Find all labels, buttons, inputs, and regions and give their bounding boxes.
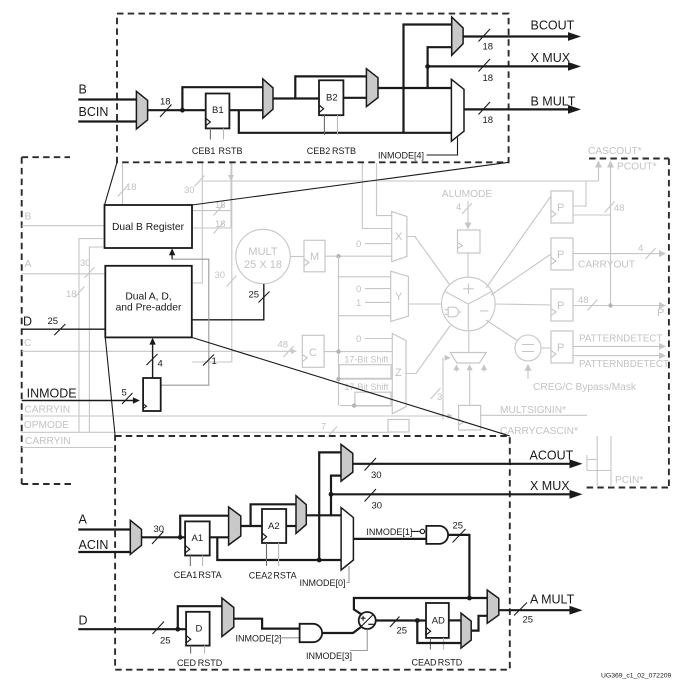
register B1 [206, 94, 230, 129]
junction B fanout [180, 108, 185, 113]
register B2 [319, 80, 343, 115]
mux B MULT select (INMODE[4]) [451, 79, 464, 141]
pin RSTD [198, 646, 223, 668]
block Dual A, D, and Pre-adder [105, 266, 192, 338]
wire P1 pcout [573, 214, 611, 216]
junction [336, 254, 340, 258]
net A MULT output arrow (25) [499, 593, 583, 626]
svg-text:CASCOUT*: CASCOUT* [588, 146, 642, 157]
svg-text:48: 48 [278, 340, 289, 351]
wire D bypass (to muxD top) [178, 606, 222, 629]
net ACOUT output arrow [353, 449, 583, 482]
svg-text:0: 0 [356, 284, 361, 295]
register A2 [262, 509, 286, 543]
carry trapezoid inputs [431, 355, 488, 420]
wire Z to ALU [406, 326, 450, 374]
pin INMODE[1] with inverter bubble [366, 527, 424, 537]
svg-text:17-Bit Shift: 17-Bit Shift [344, 355, 389, 365]
wire mux out (30) [142, 524, 186, 544]
wire B direct bypass (to B MULT mux bottom) [239, 110, 452, 133]
wire C into C register [22, 350, 297, 352]
wire pre-adder out (25) [376, 617, 426, 637]
svg-text:A1: A1 [192, 533, 204, 544]
svg-text:M: M [310, 251, 319, 263]
pin RSTA [198, 556, 221, 581]
node A (gray input label) [22, 259, 105, 274]
svg-text:A MULT: A MULT [530, 593, 575, 607]
bottom dashed zoom box [115, 436, 510, 670]
net P output [573, 295, 666, 319]
svg-text:Z: Z [395, 367, 402, 379]
wire ALU to eq [486, 320, 517, 340]
svg-text:18: 18 [483, 73, 494, 84]
pin INMODE[4] select [378, 138, 458, 161]
svg-text:P: P [557, 342, 564, 354]
block Dual B Register [105, 205, 193, 248]
svg-text:P: P [657, 307, 664, 319]
wire B2 out to mux3 [343, 97, 366, 99]
wire B [22, 225, 104, 227]
pin CED [177, 646, 197, 668]
net PATTERNDETECT [573, 334, 666, 350]
svg-text:RSTD: RSTD [438, 658, 463, 668]
wire CARRYIN2 [22, 447, 113, 449]
wire pcout loop horizontal [184, 176, 599, 207]
net CASCOUT* [588, 146, 642, 181]
pin RSTD2 [438, 638, 463, 668]
svg-text:30: 30 [80, 258, 91, 269]
wire pre-adder block to MULT (25) [192, 284, 270, 320]
register C [302, 335, 324, 367]
svg-text:4: 4 [638, 243, 643, 254]
svg-text:Dual B Register: Dual B Register [112, 222, 185, 233]
wire mux3 out to B MULT mux [378, 87, 451, 89]
net PATTERNBDETECT [573, 352, 669, 370]
svg-text:INMODE[2]: INMODE[2] [236, 634, 282, 644]
wire C vertical cascade [338, 277, 340, 406]
comparator = circle [515, 335, 541, 361]
svg-text:RSTA: RSTA [198, 570, 221, 580]
wire A [22, 273, 105, 275]
wire BCIN [78, 120, 137, 122]
pin CEAD [411, 638, 437, 668]
register A1 [185, 521, 210, 555]
node OPMODE (gray label) [22, 420, 390, 437]
node D (input label) [22, 315, 106, 336]
svg-text:INMODE[3]: INMODE[3] [306, 651, 352, 661]
svg-text:A2: A2 [268, 521, 280, 532]
svg-text:INMODE[1]: INMODE[1] [366, 527, 412, 537]
ALUMODE label [442, 189, 493, 230]
svg-text:OPMODE: OPMODE [24, 420, 69, 431]
svg-text:B1: B1 [212, 105, 224, 116]
svg-text:CEA1: CEA1 [174, 570, 198, 580]
wire A1 out to mux2 [210, 536, 229, 538]
register D [186, 612, 210, 646]
wire ALU to P2 [491, 254, 551, 295]
svg-text:CARRYOUT: CARRYOUT [578, 260, 635, 271]
zoom callout line right (pre-adder block to bottom box) [192, 337, 510, 436]
pin INMODE[2] [236, 634, 300, 644]
ALU circle [442, 277, 496, 331]
mux Y input 1 [356, 298, 391, 309]
svg-text:18: 18 [66, 289, 77, 300]
wire B 18 drop from top box [118, 163, 137, 225]
pin CEB2 [307, 115, 331, 156]
wire shift2 feed [340, 403, 392, 407]
svg-text:D: D [23, 315, 32, 329]
middle slice boundary dashed box (partial) [22, 157, 669, 487]
svg-text:B: B [79, 83, 87, 97]
svg-text:25: 25 [397, 626, 408, 637]
svg-text:B: B [25, 212, 32, 223]
wire BCIN cascade vertical [66, 239, 103, 433]
svg-text:CEAD: CEAD [411, 658, 437, 668]
wire unregistered tap up to ACOUT mux [317, 452, 342, 562]
wire b out 18 [192, 210, 231, 212]
svg-text:A: A [79, 513, 88, 527]
svg-text:18: 18 [483, 115, 494, 126]
junction A fanout [178, 535, 183, 540]
svg-text:48: 48 [578, 295, 589, 306]
junction D fanout [175, 627, 180, 632]
mux X input 0 [356, 239, 392, 250]
svg-text:25: 25 [523, 615, 534, 626]
wire D input [22, 328, 106, 330]
svg-text:X: X [395, 231, 403, 243]
svg-text:30: 30 [184, 185, 195, 196]
node C (gray input label) [22, 338, 297, 357]
zoom callout line left (top box to Dual B Register) [105, 162, 118, 205]
register INMODE [143, 378, 161, 411]
register P2 [551, 238, 573, 270]
pin CEA2 [249, 543, 273, 581]
svg-text:D: D [196, 624, 203, 635]
svg-text:PCOUT*: PCOUT* [617, 162, 657, 173]
gate AND A-mult [426, 526, 448, 544]
mux B2/bypass select [366, 69, 378, 107]
net X MUX output arrow [428, 51, 581, 84]
wire gated A to pre-adder and A MULT mux [354, 598, 487, 614]
wire D (25) [78, 628, 186, 630]
gate AND D-path [300, 624, 323, 642]
svg-text:PATTERNDETECT: PATTERNDETECT [579, 334, 662, 345]
svg-text:4: 4 [158, 359, 163, 370]
svg-text:CED: CED [177, 658, 197, 668]
svg-text:ALUMODE: ALUMODE [442, 189, 493, 200]
wire ALU to P1 [486, 196, 551, 288]
svg-text:CARRYIN: CARRYIN [24, 405, 70, 416]
svg-text:ACIN: ACIN [79, 538, 109, 552]
wire B1 bypass (to mux2 top) [182, 87, 262, 110]
svg-text:0: 0 [356, 239, 361, 250]
mux A MULT select [487, 590, 499, 623]
svg-text:C: C [24, 338, 31, 349]
top dashed zoom box [117, 14, 509, 163]
svg-text:Y: Y [395, 291, 403, 303]
pin RSTA2 [273, 543, 296, 581]
node CARRYIN2 (gray label) [22, 436, 113, 448]
mux B/BCIN select [136, 91, 147, 129]
wire INMODE reg to pre-adder block (4, arrow) [147, 338, 163, 378]
svg-text:CEA2: CEA2 [249, 571, 273, 581]
wire A cascade vertical right of blocks [192, 163, 237, 362]
net PCOUT* [605, 161, 657, 306]
net PCIN* staircase [587, 436, 643, 487]
wire mux1 out (18) [148, 97, 206, 118]
node INMODE (input label) [22, 387, 140, 405]
svg-text:25: 25 [453, 521, 464, 532]
svg-text:1: 1 [212, 356, 217, 367]
wire X to ALU [407, 237, 450, 285]
pin RSTB [218, 128, 242, 156]
CREG/C Bypass/Mask label [525, 364, 637, 393]
svg-text:X MUX: X MUX [531, 51, 571, 65]
wire INMODE input (5, arrow) [22, 400, 136, 402]
wire AND2 out to pre-adder [322, 627, 361, 633]
shifter 17-bit shift 1 [339, 355, 391, 379]
wire registered tap up to ACOUT mux [329, 476, 343, 516]
pre-adder +/- circle [359, 612, 376, 629]
svg-text:CARRYIN: CARRYIN [25, 436, 71, 447]
svg-text:UG369_c1_02_072209: UG369_c1_02_072209 [601, 673, 672, 680]
wire CARRYIN [22, 415, 449, 417]
mux B1/bypass select [263, 79, 273, 118]
node B input label [78, 83, 137, 100]
wire AD mux out to A MULT mux [471, 616, 487, 631]
wire M to X mux [325, 254, 392, 277]
net CARRYOUT [573, 243, 666, 271]
wire A direct bypass (to INMODE0 mux bottom) [217, 537, 341, 560]
wire INMODE[4] to Dual B Register (arrow) [161, 248, 217, 385]
svg-text:P: P [557, 300, 564, 312]
mux A/ACIN select [130, 520, 141, 554]
wire A [78, 528, 131, 530]
mux D/bypass select [222, 598, 234, 637]
wire ALU to P3 [495, 304, 551, 305]
wire muxD out to AND2 [234, 619, 300, 629]
pin INMODE[3] [306, 630, 367, 662]
wire Y to ALU [408, 303, 441, 305]
wire b-cascade vertical [192, 163, 234, 234]
register AD [426, 603, 449, 638]
carry select trapezoid [450, 331, 486, 363]
svg-text:4: 4 [456, 202, 461, 213]
wire ALUMODE reg to ALU [467, 253, 469, 277]
svg-text:RSTD: RSTD [198, 658, 223, 668]
register P1 [551, 191, 573, 223]
wire INMODE0 mux out to AND gate [353, 538, 426, 540]
wire mux2b out [241, 525, 262, 527]
zoom callout line right (top box to Dual B Register) [192, 162, 509, 205]
mux AD/bypass select [461, 613, 471, 648]
mux Z [392, 334, 406, 414]
svg-text:D: D [79, 614, 88, 628]
wire A1 bypass (to mux2 top) [180, 516, 228, 538]
svg-text:Dual A, D,: Dual A, D, [125, 292, 171, 303]
wire shift1 feed [336, 377, 392, 381]
pin INMODE[0] [300, 566, 350, 588]
net B MULT output arrow [464, 95, 581, 127]
node B (gray input label) [22, 212, 104, 226]
pin CEA1 [174, 556, 198, 581]
svg-text:25: 25 [160, 636, 171, 647]
register CARRYIN cascade [459, 405, 481, 430]
mux INMODE[0] select (tall) [341, 508, 353, 570]
svg-text:30: 30 [215, 270, 226, 281]
svg-text:INMODE[0]: INMODE[0] [300, 578, 346, 588]
node BCIN input label [78, 105, 137, 122]
svg-text:18: 18 [160, 97, 171, 108]
svg-text:INMODE[4]: INMODE[4] [378, 151, 424, 161]
svg-text:BCIN: BCIN [79, 105, 109, 119]
svg-text:18: 18 [215, 219, 226, 230]
svg-text:0: 0 [356, 334, 361, 345]
multiplier MULT 25x18 circle [236, 229, 290, 283]
svg-text:RSTB: RSTB [332, 146, 356, 156]
svg-text:C: C [309, 347, 317, 359]
wire A2 bypass (to mux3 top) [251, 504, 296, 526]
mux X [392, 211, 407, 261]
svg-text:25: 25 [48, 316, 59, 327]
svg-text:RSTB: RSTB [218, 146, 242, 156]
node A input label [78, 513, 131, 530]
wire B [78, 98, 137, 100]
svg-text:CARRYCASCIN*: CARRYCASCIN* [500, 426, 578, 437]
mux Y [391, 271, 409, 321]
wire eq to P4 [541, 347, 551, 349]
wire A2 out to mux3 [286, 525, 296, 527]
register CARRYIN-sel below Z [388, 420, 409, 433]
svg-text:P: P [557, 249, 564, 261]
svg-text:7: 7 [321, 422, 326, 433]
wire X feed verticals from top box [362, 163, 391, 229]
shifter 17-bit shift 2 [344, 382, 391, 406]
wire C reg out [324, 349, 392, 353]
svg-text:RSTA: RSTA [273, 571, 296, 581]
wire AD out to ADmux [449, 619, 461, 621]
mux BCOUT select [452, 17, 463, 55]
wire OPMODE [22, 431, 390, 433]
svg-text:CREG/C Bypass/Mask: CREG/C Bypass/Mask [533, 382, 637, 393]
wire registered tap up to BCOUT mux [425, 47, 452, 88]
svg-text:BCOUT: BCOUT [531, 19, 575, 33]
svg-text:PATTERNBDETECT: PATTERNBDETECT [579, 359, 669, 370]
svg-text:1: 1 [356, 298, 361, 309]
net X MUX output arrow [331, 479, 583, 512]
svg-text:18: 18 [126, 182, 137, 193]
wire C to Y [339, 315, 391, 317]
svg-text:3: 3 [437, 392, 442, 403]
svg-text:and Pre-adder: and Pre-adder [116, 303, 182, 314]
svg-text:30: 30 [371, 470, 382, 481]
mux A2/bypass select [296, 496, 306, 534]
svg-text:5: 5 [122, 388, 127, 399]
svg-text:INMODE: INMODE [27, 387, 77, 401]
mux ACOUT select [341, 444, 353, 481]
svg-text:48: 48 [614, 203, 625, 214]
net MULTSIGNIN* [480, 405, 587, 416]
register P4 [551, 331, 573, 363]
register P3 [551, 289, 573, 321]
svg-text:A: A [25, 259, 32, 270]
wire B1 out to mux2 [229, 109, 262, 111]
register ALUMODE [458, 230, 481, 253]
svg-text:25 X 18: 25 X 18 [244, 259, 282, 271]
wire ACIN [78, 551, 131, 553]
node D input label [78, 614, 186, 647]
wire b mult 18 [192, 227, 231, 229]
node ACIN input label [78, 538, 131, 552]
wire ACIN cascade vertical [80, 247, 103, 432]
wire mux3b out to INMODE0 mux [306, 514, 341, 516]
pin RSTB2 [332, 115, 356, 156]
svg-text:PCIN*: PCIN* [615, 475, 643, 486]
net BCOUT output arrow [463, 19, 581, 53]
svg-text:MULT: MULT [248, 246, 277, 258]
svg-text:MULTSIGNIN*: MULTSIGNIN* [500, 405, 566, 416]
wire B2 bypass (to mux3 top) [295, 76, 366, 98]
mux Y input 0 [356, 284, 391, 295]
pin CEB1 [192, 128, 216, 156]
svg-text:CEB1: CEB1 [192, 146, 216, 156]
register M [304, 240, 325, 271]
wire AD bypass [417, 621, 461, 644]
svg-text:P: P [557, 202, 564, 214]
mux Z input 0 [356, 334, 392, 345]
svg-text:25: 25 [249, 290, 260, 301]
wire dual B right vertical [192, 163, 202, 283]
svg-text:AD: AD [432, 616, 445, 627]
zoom callout line left (pre-adder block to bottom box) [105, 337, 115, 436]
mux A1/bypass select [229, 507, 241, 545]
svg-text:30: 30 [372, 501, 383, 512]
svg-text:18: 18 [483, 42, 494, 53]
wire AND1 out (25) [448, 521, 472, 601]
node CARRYIN (gray label) [22, 405, 453, 419]
wire unregistered tap up to BCOUT mux [404, 25, 452, 133]
wire mux2 out [273, 97, 319, 99]
svg-text:X MUX: X MUX [530, 479, 570, 493]
wire MULT to M [290, 256, 304, 258]
svg-text:CEB2: CEB2 [307, 146, 331, 156]
svg-text:B2: B2 [326, 93, 338, 104]
svg-text:ACOUT: ACOUT [530, 449, 574, 463]
